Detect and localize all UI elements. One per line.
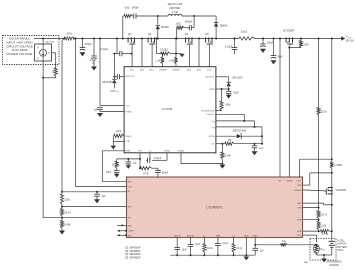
svg-text:10nF: 10nF [182, 249, 188, 251]
svg-text:1.24k: 1.24k [155, 61, 161, 63]
svg-text:LiFePO4: LiFePO4 [337, 244, 347, 246]
svg-text:03457M01: 03457M01 [169, 8, 181, 10]
svg-text:N1002JB: N1002JB [329, 265, 339, 267]
svg-text:6.49k: 6.49k [64, 224, 71, 227]
svg-text:CC: CC [214, 90, 216, 92]
svg-text:B540A: B540A [162, 26, 170, 29]
svg-text:0.015Ω: 0.015Ω [160, 49, 168, 51]
svg-text:IIMON: IIMON [174, 235, 181, 237]
svg-text:CHRG: CHRG [128, 231, 135, 233]
svg-text:OFB: OFB [297, 220, 302, 222]
svg-text:100nF: 100nF [162, 172, 169, 174]
svg-text:TMR: TMR [216, 235, 221, 237]
svg-text:ITH: ITH [138, 150, 142, 152]
svg-text:1000pF: 1000pF [185, 21, 194, 23]
svg-text:PGND: PGND [178, 150, 185, 152]
svg-text:FREQ: FREQ [126, 136, 132, 138]
svg-text:IGATE: IGATE [286, 179, 293, 182]
svg-text:PACK: PACK [337, 249, 343, 252]
svg-text:CBC15W: CBC15W [45, 42, 54, 44]
svg-text:0805: 0805 [304, 262, 308, 264]
svg-text:IBMON: IBMON [187, 235, 194, 237]
svg-text:PGOOD: PGOOD [206, 114, 214, 116]
svg-text:10nF: 10nF [106, 172, 112, 174]
svg-text:Q2: Q2 [128, 32, 132, 36]
svg-text:BAT: BAT [297, 202, 302, 205]
svg-text:B540A: B540A [220, 24, 228, 27]
svg-text:1.37M: 1.37M [322, 234, 329, 236]
svg-text:16.2k: 16.2k [64, 212, 71, 215]
svg-text:270μF: 270μF [85, 43, 93, 46]
svg-text:0.1μF: 0.1μF [222, 243, 228, 245]
svg-text:1μF: 1μF [259, 148, 264, 150]
svg-text:1MΩ: 1MΩ [66, 32, 72, 36]
svg-text:1nF: 1nF [133, 163, 137, 165]
svg-text:Q2: SiR426DP: Q2: SiR426DP [125, 247, 141, 249]
svg-text:−: − [180, 69, 181, 71]
svg-text:CFB: CFB [297, 207, 302, 209]
svg-text:MODE/PLLIN: MODE/PLLIN [202, 110, 215, 112]
svg-text:Q4: SiR426DP: Q4: SiR426DP [125, 254, 141, 256]
svg-text:SGND: SGND [164, 150, 171, 152]
svg-text:Q5: SiR496DP: Q5: SiR496DP [125, 258, 141, 260]
svg-text:5.6Ω: 5.6Ω [125, 7, 130, 9]
svg-text:OS−: OS− [213, 128, 216, 130]
svg-text:Q4: Q4 [148, 32, 152, 36]
svg-text:CLN: CLN [128, 186, 133, 188]
svg-text:26.7k: 26.7k [321, 215, 328, 217]
svg-text:210k: 210k [64, 198, 70, 201]
svg-text:IN: IN [128, 106, 130, 108]
svg-text:30.1k: 30.1k [321, 112, 328, 114]
svg-text:4.7μH: 4.7μH [172, 12, 179, 14]
svg-text:CSP: CSP [296, 180, 301, 182]
svg-text:LTC4000-1: LTC4000-1 [206, 205, 222, 209]
svg-text:100μF: 100μF [267, 42, 274, 44]
svg-text:Q3: Q3 [185, 32, 189, 36]
svg-text:3.3μF: 3.3μF [90, 60, 97, 62]
svg-text:RST: RST [128, 235, 133, 237]
svg-text:CC: CC [214, 137, 216, 139]
svg-text:0.22μF: 0.22μF [225, 46, 233, 48]
svg-text:107k: 107k [116, 131, 122, 133]
svg-text:1.24k: 1.24k [169, 61, 175, 63]
svg-text:GND: GND [244, 235, 249, 237]
svg-text:BGATE: BGATE [294, 189, 302, 192]
svg-text:CC: CC [148, 150, 152, 152]
svg-text:1μF: 1μF [94, 109, 99, 111]
svg-text:RDT: RDT [128, 182, 133, 184]
svg-text:NTC: NTC [297, 235, 302, 237]
svg-text:Si7435DP: Si7435DP [336, 190, 347, 192]
svg-text:BOOST2: BOOST2 [206, 77, 215, 79]
svg-text:560pF: 560pF [132, 7, 139, 9]
svg-text:BOOST1: BOOST1 [126, 76, 135, 78]
svg-text:0.01μF: 0.01μF [154, 158, 162, 160]
svg-text:10nF: 10nF [195, 244, 201, 246]
svg-text:0.015Ω: 0.015Ω [334, 165, 342, 167]
svg-text:15V 5A: 15V 5A [346, 40, 354, 43]
svg-text:0.22μF: 0.22μF [101, 49, 109, 51]
svg-text:18.2k: 18.2k [207, 248, 213, 250]
svg-text:10μF: 10μF [233, 92, 239, 94]
svg-text:Si7135DP: Si7135DP [283, 30, 294, 33]
svg-text:CSN: CSN [297, 185, 302, 187]
svg-text:100k: 100k [225, 105, 231, 107]
svg-text:PGND: PGND [126, 111, 133, 113]
svg-text:14.7k: 14.7k [143, 174, 150, 176]
svg-text:POWER VOLTAGE: POWER VOLTAGE [7, 52, 33, 56]
svg-text:HD: HD [278, 180, 282, 182]
svg-text:BATTERY: BATTERY [337, 246, 348, 249]
svg-text:VM: VM [128, 207, 131, 209]
svg-text:WE-HCI 7443: WE-HCI 7443 [168, 4, 183, 6]
svg-text:+: + [167, 69, 168, 71]
svg-text:ENC: ENC [128, 225, 133, 227]
svg-text:BZT52C5V6: BZT52C5V6 [233, 130, 247, 132]
svg-text:4-CELL: 4-CELL [337, 241, 345, 243]
svg-text:BFB: BFB [297, 231, 302, 233]
svg-text:DFLS160: DFLS160 [103, 82, 114, 84]
svg-text:0.01Ω: 0.01Ω [241, 31, 248, 33]
svg-text:1μF: 1μF [260, 251, 265, 253]
svg-text:LTC3789: LTC3789 [162, 107, 173, 111]
svg-text:3.9Ω: 3.9Ω [176, 24, 181, 26]
svg-text:RUN: RUN [126, 151, 131, 153]
svg-text:DFLS160: DFLS160 [232, 78, 243, 80]
svg-text:110k: 110k [321, 226, 327, 228]
svg-text:BIAS: BIAS [253, 234, 258, 237]
svg-text:1μF: 1μF [102, 196, 107, 198]
svg-text:Q3: SiR496DP: Q3: SiR496DP [125, 251, 141, 253]
svg-text:OS+: OS+ [213, 122, 216, 124]
svg-text:22.1k: 22.1k [237, 248, 243, 250]
svg-text:6.04k: 6.04k [225, 155, 232, 157]
svg-text:NTHS0805N02: NTHS0805N02 [326, 262, 342, 264]
svg-text:10M: 10M [304, 44, 309, 46]
svg-text:Q5: Q5 [205, 32, 209, 36]
